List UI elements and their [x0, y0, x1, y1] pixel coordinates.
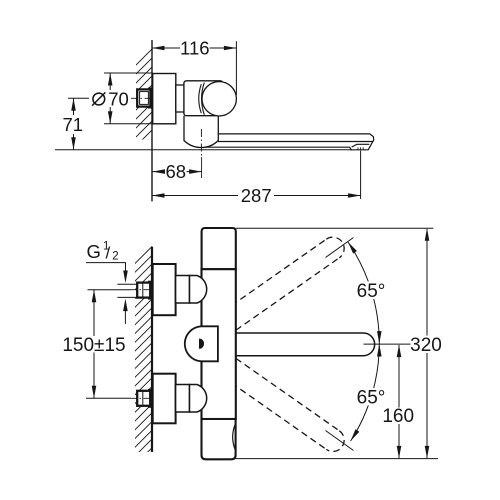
65° arc upper	[348, 242, 379, 344]
top escutcheon	[153, 264, 176, 315]
wall hatching (bottom view)	[129, 240, 159, 471]
G1/2 label and leader	[86, 263, 126, 324]
main body	[202, 269, 236, 419]
dimension 160	[398, 345, 400, 458]
sensor housing D	[185, 326, 218, 361]
sensor window blob	[199, 339, 204, 349]
top check-valve dome	[190, 276, 207, 304]
inlet fitting behind wall (top view)	[137, 88, 151, 109]
svg-text:65°: 65°	[357, 388, 386, 409]
axis stub upper capsule	[326, 238, 354, 258]
65° label upper	[356, 281, 387, 302]
dimension 287	[152, 151, 361, 199]
wall line (bottom view)	[151, 247, 153, 452]
top connector	[176, 276, 190, 304]
spout base centerline	[200, 129, 202, 178]
dimension 68	[153, 171, 202, 173]
body cap	[202, 228, 236, 269]
valve body (top view)	[184, 81, 223, 116]
fitting centerline (top view)	[131, 97, 158, 99]
svg-text:71: 71	[63, 114, 84, 135]
bottom check-valve dome	[190, 385, 207, 413]
leader line to 320 at spout center	[364, 343, 411, 345]
dashed swivel capsule up 65°	[214, 233, 349, 337]
svg-text:2: 2	[112, 251, 118, 263]
G1/2 extension lines (top fitting)	[117, 284, 138, 297]
knob side arcs (top view)	[199, 83, 205, 115]
dimension 116	[152, 41, 236, 95]
bottom escutcheon	[153, 374, 176, 424]
dashed swivel capsule down 65°	[214, 352, 349, 456]
knob circle (top view)	[202, 82, 236, 116]
baseline (bottom view)	[236, 458, 438, 460]
65° label lower	[356, 388, 387, 409]
connector (top view)	[176, 85, 189, 112]
svg-text:320: 320	[410, 335, 442, 356]
wall line (top view)	[151, 40, 153, 201]
svg-text:287: 287	[241, 185, 272, 206]
bottom inlet fitting behind wall	[137, 389, 151, 408]
top inlet fitting behind wall	[137, 281, 151, 300]
dimension 320	[236, 228, 434, 458]
bottom pipe	[202, 419, 236, 459]
dimension Ø70	[104, 73, 153, 124]
arc arrowheads	[346, 241, 382, 443]
svg-text:70: 70	[108, 89, 129, 110]
wall hatching (top view)	[130, 41, 160, 161]
svg-text:116: 116	[180, 38, 210, 59]
dimension 150±15	[93, 290, 95, 398]
svg-text:150±15: 150±15	[62, 335, 125, 356]
escutcheon flange (top view)	[153, 74, 176, 124]
svg-text:/: /	[106, 244, 111, 263]
svg-text:65°: 65°	[357, 281, 386, 302]
spout tube (top view)	[206, 134, 374, 150]
svg-text:160: 160	[382, 406, 414, 427]
svg-text:68: 68	[166, 161, 187, 182]
dimension 71	[68, 98, 89, 150]
svg-text:G: G	[87, 241, 101, 262]
spout base (top view)	[184, 116, 218, 148]
bottom connector	[176, 385, 190, 413]
top fitting centerline	[88, 289, 153, 291]
bottom fitting centerline	[86, 397, 152, 399]
axis stub lower capsule	[326, 431, 354, 451]
baseline (top view)	[55, 149, 352, 151]
spout capsule (solid, front view)	[236, 333, 374, 356]
65° arc lower	[351, 344, 380, 442]
